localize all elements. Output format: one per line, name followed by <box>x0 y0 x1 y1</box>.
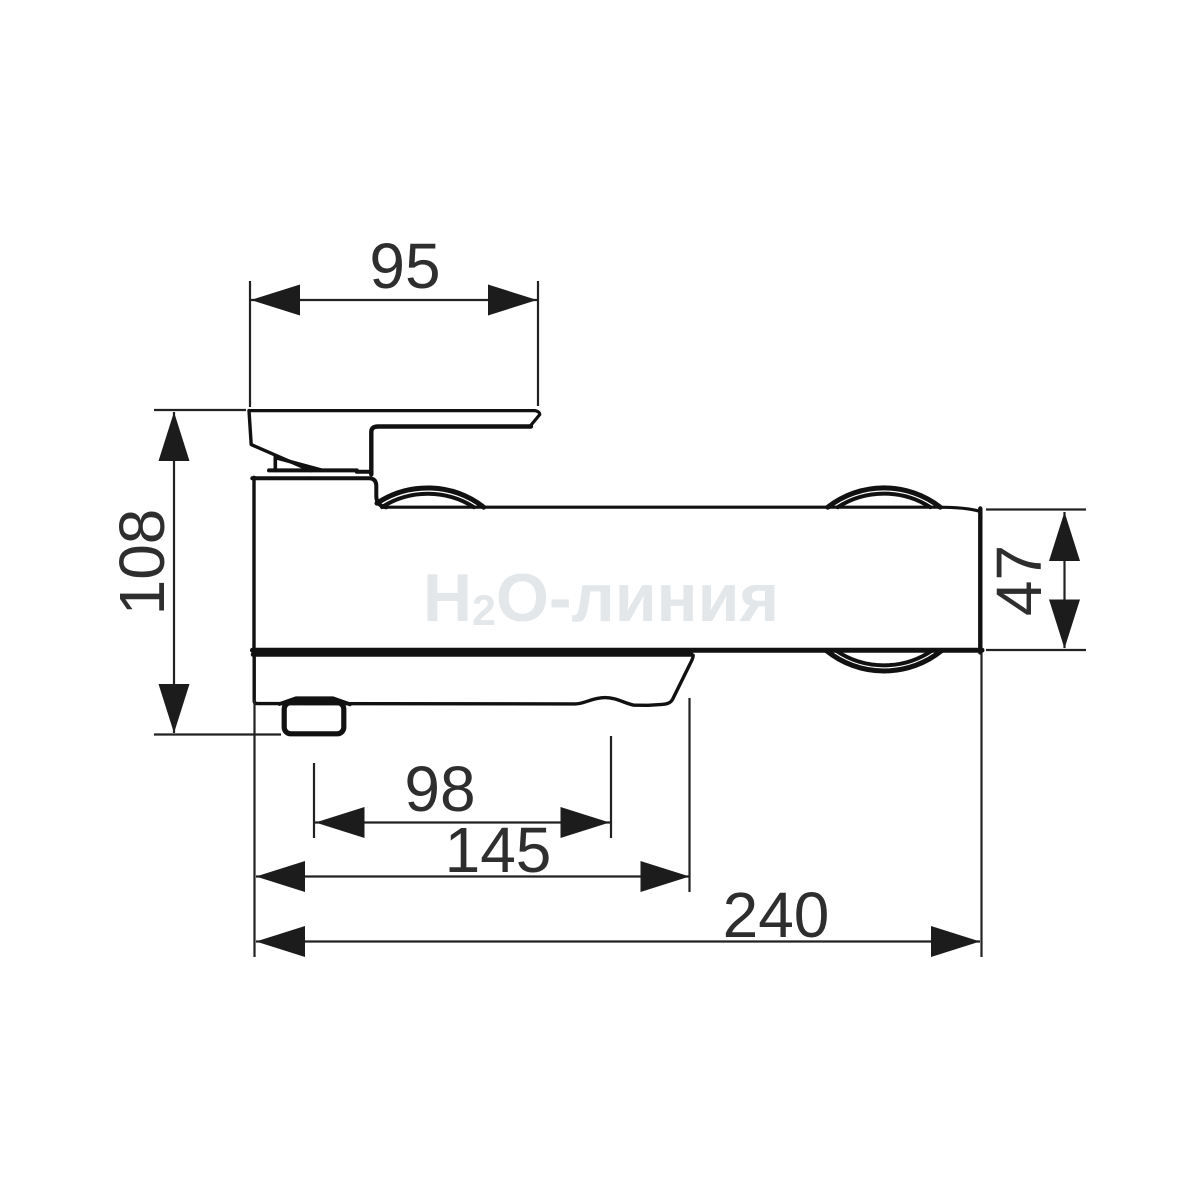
right flange bottom inner arc <box>836 651 932 666</box>
arrow 47 down <box>1049 600 1080 649</box>
dim 95 line <box>251 299 537 301</box>
svg-text:145: 145 <box>445 814 552 886</box>
svg-text:47: 47 <box>983 545 1055 616</box>
arrow 108 down <box>159 684 190 733</box>
body bottom edge <box>253 648 983 653</box>
arrow 240 right <box>931 926 980 957</box>
left flange inner arc <box>382 494 474 507</box>
aerator body <box>284 703 344 734</box>
dim 47 extension lines <box>986 510 1086 651</box>
dim 240 right extension line <box>980 653 982 957</box>
body top edge <box>383 507 980 511</box>
dim 47 line <box>1063 512 1065 648</box>
right flange bottom outer arc <box>826 651 941 671</box>
dim 145 line <box>256 875 689 877</box>
left flange outer arc <box>377 488 484 507</box>
arrow 240 left <box>256 926 305 957</box>
dim 95 extension lines <box>250 281 538 407</box>
body left edge <box>252 477 255 651</box>
dim 145-240 left extension line <box>253 700 255 957</box>
aerator top arc <box>280 698 351 704</box>
dim 240 line <box>256 940 980 942</box>
arrow 98 right <box>561 807 610 838</box>
spout outline <box>254 656 693 706</box>
svg-text:240: 240 <box>723 879 830 951</box>
cartridge triangle <box>275 456 322 470</box>
right flange top outer arc <box>828 488 940 507</box>
spout top thick band <box>253 652 692 657</box>
svg-text:H2O-линия: H2O-линия <box>423 560 779 636</box>
arrow 145 left <box>256 861 305 892</box>
arrow 47 up <box>1049 512 1080 561</box>
dim 108 extension lines <box>154 410 281 735</box>
body plateau top <box>252 478 386 507</box>
dim 98 extension lines <box>314 736 611 838</box>
arrow 108 up <box>159 412 190 461</box>
svg-text:95: 95 <box>369 230 440 302</box>
lever handle top <box>249 411 540 427</box>
body right edge <box>978 509 982 653</box>
arrow 95 right <box>488 285 537 316</box>
dim 98 line <box>315 821 610 823</box>
lever handle left side <box>249 411 311 471</box>
dim 145 right extension line <box>688 698 690 892</box>
arrow 95 left <box>251 285 300 316</box>
arrow 98 left <box>316 807 365 838</box>
right flange top inner arc <box>838 494 931 508</box>
cartridge plate <box>269 470 371 471</box>
dim 108 line <box>173 412 175 733</box>
arrow 145 right <box>641 861 690 892</box>
lever underside and stem <box>371 427 531 475</box>
svg-text:108: 108 <box>106 509 178 616</box>
